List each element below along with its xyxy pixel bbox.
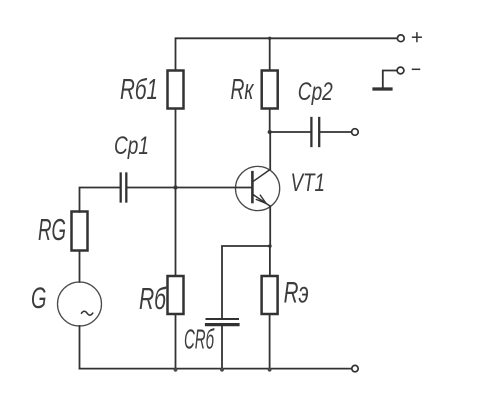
wire base <box>127 187 252 189</box>
svg-text:Rэ: Rэ <box>284 277 309 310</box>
svg-text:Cр2: Cр2 <box>298 78 333 106</box>
wire collector node to Cp2 <box>270 131 311 133</box>
wire Rb bottom <box>175 314 177 369</box>
resistor Re <box>262 276 278 314</box>
wire input to Cp1 <box>80 188 120 213</box>
node bottom Rb junction <box>174 368 178 372</box>
capacitor Cp2 <box>311 118 319 146</box>
wire base node to Rb <box>175 188 177 277</box>
node bottom Re junction <box>268 368 272 372</box>
label + sign <box>413 33 422 42</box>
svg-text:RG: RG <box>38 212 66 247</box>
wire Rk bottom to collector node <box>269 109 271 133</box>
svg-text:Rб1: Rб1 <box>120 74 158 106</box>
wire Rk top <box>269 38 271 70</box>
capacitor Ce (CRb) <box>207 319 239 325</box>
wire emitter tee to Ce branch <box>222 246 270 318</box>
node base junction <box>173 185 177 189</box>
svg-text:CRб: CRб <box>184 324 215 355</box>
node top-rail/Rk junction <box>268 37 271 40</box>
ground <box>374 87 391 90</box>
terminal Cp2 output circle <box>352 129 359 136</box>
node bottom Ce junction <box>220 368 224 372</box>
wire Rb1 bottom to base node <box>175 109 177 188</box>
node collector junction <box>268 130 272 134</box>
resistor Rb <box>168 276 184 314</box>
wire Ce bottom <box>221 326 223 368</box>
terminal - output circle <box>397 67 404 74</box>
resistor Rb1 <box>168 71 184 109</box>
terminal + output circle <box>397 35 404 42</box>
wire Re bottom <box>269 314 271 369</box>
wire G bottom <box>79 326 81 369</box>
svg-text:Rб: Rб <box>139 281 167 316</box>
resistor Rk <box>262 71 278 109</box>
wire bottom rail <box>80 368 352 370</box>
transistor VT1 <box>236 166 280 210</box>
wire Cp2 to output terminal <box>320 131 351 133</box>
wire minus-to-ground <box>383 71 397 88</box>
wire emitter to Re <box>269 246 271 276</box>
generator G <box>58 282 102 326</box>
wire RG to G <box>79 251 81 283</box>
terminal bottom output circle <box>352 365 358 371</box>
label - sign <box>413 68 420 70</box>
wire emitter down <box>269 206 271 246</box>
wire collector vertical into transistor <box>269 132 271 169</box>
svg-text:VT1: VT1 <box>291 169 326 197</box>
svg-text:G: G <box>31 282 47 315</box>
resistor RG <box>72 212 88 251</box>
wire top rail <box>176 38 398 70</box>
svg-text:Cр1: Cр1 <box>114 132 149 160</box>
node emitter tee <box>268 244 272 248</box>
capacitor Cp1 <box>121 174 127 202</box>
svg-text:Rк: Rк <box>231 74 255 106</box>
